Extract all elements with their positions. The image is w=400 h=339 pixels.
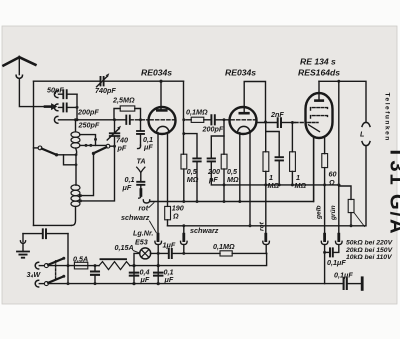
svg-text:10kΩ bei 110V: 10kΩ bei 110V [346,254,393,261]
wire ground column [22,234,24,242]
wire gelb lead [324,185,326,236]
wire schwarz jack column [157,253,159,283]
wire barretter to lamp row [130,265,134,267]
V2 filament arc [238,126,250,132]
svg-text:1μF: 1μF [163,240,176,249]
wire top bus [34,80,184,82]
svg-text:L: L [360,130,364,139]
svg-text:200pF: 200pF [202,124,224,133]
jack gruen cradle [335,241,342,244]
coil L1 tap lower [80,144,106,146]
trimmer capacitor 740pF (antenna series) [101,77,104,86]
wire output tube filament right leg [324,137,326,153]
wire V1 filament left leg to schwarz jack [157,133,159,236]
svg-text:3₄W: 3₄W [27,270,42,279]
wire heater return line [168,225,366,227]
pointer to dropper value [354,213,365,227]
wire anode to speaker jack [319,81,366,122]
jack socket 50pF row [54,91,57,98]
switch gang link dashed [55,261,57,279]
svg-text:μF: μF [122,183,132,192]
svg-text:μF: μF [140,275,150,284]
svg-text:T31 G/A: T31 G/A [386,146,400,235]
svg-text:RE 134 s: RE 134 s [300,56,336,66]
antenna [4,57,36,65]
svg-text:grün: grün [330,205,337,221]
svg-text:μF: μF [143,143,153,152]
triode V1 RE034s envelope [149,107,176,134]
jack TA upper hook [138,145,141,148]
resistor 0.1 Mohm grid V2 [186,119,191,121]
svg-text:200pF: 200pF [77,108,99,117]
output tube screen grid 2 [311,116,328,118]
svg-text:MΩ: MΩ [268,181,280,190]
svg-text:Ω: Ω [172,211,179,220]
svg-text:rot: rot [139,204,149,213]
capacitor 0.1uF (to heater bus, rot lead) [137,182,144,185]
wire V2 filament right leg [249,133,251,226]
svg-text:50kΩ bei 220V: 50kΩ bei 220V [346,239,394,246]
resistor 190 ohm [165,206,171,219]
svg-text:MΩ: MΩ [227,175,239,184]
svg-text:MΩ: MΩ [187,175,199,184]
jack rot socket on heater bus [143,200,149,203]
jack gruen pin [337,234,340,240]
capacitor 200pF (V2 grid) [211,136,224,158]
resistor 60 ohm [322,154,328,168]
jack socket 250pF row [54,116,57,123]
plug TA lower horn [137,167,145,172]
svg-text:schwarz: schwarz [190,226,219,235]
barretter bar [101,258,127,260]
dial lamp E53 [140,248,151,259]
wire joining 50pF and 200pF rows [76,94,78,120]
svg-text:RE034s: RE034s [225,67,256,77]
svg-text:250pF: 250pF [78,121,100,130]
svg-text:TA: TA [137,157,146,166]
coil L1 tap upper [80,135,96,146]
wire mains row upper [48,265,74,267]
capacitor 200pF (V1 anode bypass) [184,134,197,158]
svg-text:pF: pF [117,144,127,153]
wire fuse to barretter [88,265,99,267]
wire lamp right lead / row A [150,252,167,254]
mains: jack socket lower [35,280,38,287]
pointer schwarz label [150,221,157,233]
switch S1a (wave range, left) [34,147,39,149]
svg-text:MΩ: MΩ [295,181,307,190]
svg-text:gelb: gelb [316,205,323,220]
pointer rot label [149,203,154,208]
grid capacitor (tuned circuit to V1 grid) [126,116,130,124]
output tube anode plate [315,99,322,102]
wire HT distribution bus [224,184,340,186]
svg-text:0,1MΩ: 0,1MΩ [213,242,235,251]
wire row B to row A corner [134,253,267,265]
wire coil L2 to box bottom [72,207,76,226]
wire bottom bus [48,283,342,285]
wire coil L1 to coil L2 [75,155,77,185]
capacitor 0.1uF (TA coupling) [140,120,142,131]
vertical from top bus corner [183,81,185,154]
V1 anode plate [157,109,166,112]
mains: jack socket upper [35,262,38,269]
V2 anode lead loop [244,82,265,123]
svg-text:0,15A: 0,15A [115,243,134,252]
capacitor 0.4uF [130,273,138,276]
svg-text:RES164ds: RES164ds [298,67,340,77]
jack L upper [362,122,370,126]
capacitor 200pF [59,106,78,108]
wire switch S1a to coil [57,154,77,156]
svg-text:20kΩ bei 150V: 20kΩ bei 150V [345,247,394,254]
V2 grid dashed [231,119,256,121]
capacitor across mains (RF) [23,233,68,235]
capacitor 0.1uF (mains) [154,273,162,276]
output tube anode lead [318,81,320,100]
capacitor 2nF coupling to output tube [257,122,277,124]
capacitor 50pF [59,93,78,95]
svg-text:740pF: 740pF [95,86,116,95]
jack gelb pin [323,234,326,240]
switch mains pole 1 [39,265,44,267]
wire speaker return [365,146,367,226]
resistor 0.1 Mohm (row A) [220,251,232,256]
output tube screen grid 1 [311,108,328,110]
capacitor mains bypass [94,266,96,284]
coil L1 (upper) [75,120,77,132]
V2 anode plate [240,112,249,115]
wire mains RF cap to bus [67,234,69,284]
jack L lower [362,142,370,146]
terminal bar [361,278,364,290]
capacitor 0.3uF (across 1 Mohm) [266,132,280,157]
fuse 0.5A [74,262,87,269]
switch S1b (wave range, right) [106,144,110,148]
svg-text:2,5MΩ: 2,5MΩ [112,96,135,105]
capacitor 200pF coupling to V2 [211,115,214,124]
wire dashed grid lead V1 [130,119,149,121]
svg-text:0,1μF: 0,1μF [334,271,353,280]
wire antenna to input plug [19,80,45,107]
resistor 50k mains dropper [339,186,351,199]
wire lamp left lead [134,253,140,283]
wire switch S1b to coil L2 tap [80,153,94,195]
ground symbol [22,243,24,251]
V1 anode lead [160,81,162,110]
svg-text:50pF: 50pF [47,86,64,95]
output tube control grid dashed [308,122,318,124]
output tube filament diagonal [309,125,320,132]
svg-text:0,1MΩ: 0,1MΩ [186,107,208,116]
svg-text:schwarz: schwarz [121,213,150,222]
svg-text:RE034s: RE034s [141,67,172,77]
svg-text:rot: rot [259,221,266,231]
svg-text:μF: μF [164,275,174,284]
svg-text:pF: pF [208,175,218,184]
jack rot plug pin [139,190,142,196]
wire left box vertical [33,81,35,225]
trimmer capacitor 740pF (tuning) [114,120,116,132]
jack socket 200pF row [54,104,57,111]
jack ground hook [20,241,25,244]
jack antenna socket [16,75,22,78]
wire heater bus [150,137,314,201]
svg-text:2nF: 2nF [270,110,284,119]
wire antenna lead [18,57,20,74]
V1 filament arc [157,126,169,132]
wire output tube filament left leg [313,137,315,201]
plug arrow into 200pF row [45,105,52,108]
wire row A middle [172,252,220,254]
output tube grid dashed lead [295,122,307,124]
jack schwarz cradle [155,241,162,244]
coil L2 (lower) [71,185,80,190]
svg-text:Telefunken: Telefunken [384,93,391,142]
jack gelb cradle [321,241,328,244]
resistor 2.5 Mohm grid leak [120,106,135,111]
jack schwarz 2 hook [183,226,185,236]
pointer 0,15A label [133,251,139,253]
capacitor 0.1uF gelb-gruen [334,246,339,253]
switch mains pole 2 [39,283,44,285]
capacitor 1uF [169,249,172,258]
jack schwarz pin [157,234,160,240]
resistor barretter zigzag [99,262,130,270]
resistor 0.5 Mohm (V2 grid leak) [221,154,227,169]
jack schwarz 2 cradle [180,241,187,244]
resistor 1 Mohm (output grid leak) [291,123,293,152]
capacitor 0.1uF output [344,278,347,289]
svg-text:Lg.Nr.: Lg.Nr. [133,229,153,238]
wire 250pF row to grid cap [59,119,127,121]
wire V2 grid node down [223,120,225,154]
triode V2 RE034s envelope [230,107,257,134]
svg-text:0,1μF: 0,1μF [327,258,346,267]
svg-text:Ω: Ω [328,178,335,187]
output tube RE134s/RES164ds envelope [306,93,333,138]
svg-text:0,5A: 0,5A [73,254,88,263]
V1 grid dashed [150,119,175,121]
wire box bottom [34,224,72,226]
resistor 0.5 Mohm (V1 anode load) [181,154,187,169]
jack rot cradle [263,241,270,244]
resistor 1 Mohm (V2 anode feed) [265,123,267,152]
wire V1 filament right leg [167,133,169,207]
jack rot (HT) pin [264,234,267,240]
svg-text:E53: E53 [135,238,148,247]
wire V2 filament left leg [239,133,241,202]
wire gruen lead [338,81,340,236]
